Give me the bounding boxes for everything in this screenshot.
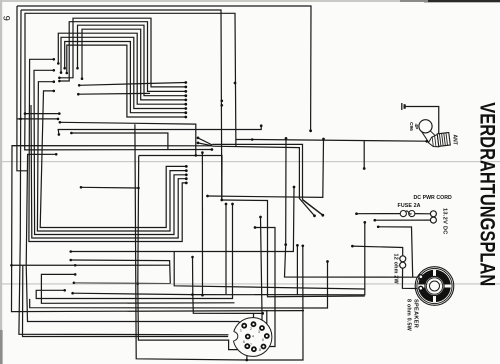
wire left U-loop 1	[40, 91, 186, 228]
wire switch line B m10	[212, 146, 314, 216]
svg-text:7: 7	[250, 343, 252, 347]
wire y155 m5	[139, 156, 222, 200]
svg-text:4P: 4P	[413, 124, 419, 131]
wire bundle top-left U5	[58, 33, 186, 104]
wire m18	[201, 153, 203, 296]
node dots center-bottom	[69, 250, 72, 253]
wire DC cord 3 m40	[378, 227, 413, 277]
node dots column 2	[185, 165, 188, 168]
wire outer loop 3	[25, 13, 236, 150]
wire bundle top-left U1	[59, 18, 185, 87]
node dots switch S1	[197, 137, 200, 140]
wire bundle top-left U4	[82, 29, 186, 100]
wire outer loop 2	[21, 10, 222, 200]
antenna connector C96	[419, 120, 450, 148]
wire antenna stub m13	[363, 141, 365, 169]
wire m27	[225, 204, 227, 294]
wire m20	[222, 200, 365, 297]
svg-text:DC PWR CORD: DC PWR CORD	[414, 195, 453, 201]
wire y85 m8b	[79, 83, 186, 86]
wire left U-loop 5	[29, 59, 186, 241]
wire m33	[23, 265, 248, 336]
wire branch y119	[17, 118, 59, 120]
wire bundle top-left U6	[61, 37, 186, 108]
wire m25 (P leg)	[174, 251, 365, 289]
wire DC cord 1 m38	[357, 213, 401, 215]
wire S-path m4	[71, 133, 167, 150]
svg-text:8: 8	[259, 348, 261, 352]
wire y188 m7	[81, 186, 139, 189]
svg-text:12 ohm 2W: 12 ohm 2W	[393, 254, 399, 285]
wire y129 m3	[58, 126, 261, 135]
wire antenna feed m12	[236, 140, 426, 142]
node dots mid-right	[322, 138, 325, 141]
wire resistor chain m41	[352, 246, 402, 256]
scan artifact darker segment	[74, 282, 171, 285]
wire m21	[255, 228, 275, 347]
wire mid m1	[60, 122, 196, 155]
svg-text:3: 3	[258, 330, 260, 334]
svg-text:2: 2	[250, 327, 252, 331]
wire m17	[193, 257, 263, 313]
fuse F1	[400, 211, 415, 217]
wire branch node A	[25, 113, 59, 115]
wire m15	[71, 187, 294, 252]
wire m29 branch	[12, 264, 171, 266]
wire m35 pin stub	[246, 346, 249, 360]
wire bundle top-left U7	[65, 42, 186, 113]
node dots switch S2	[313, 214, 316, 217]
wire long left-bottom m2	[135, 124, 303, 360]
wire y196 m14	[208, 139, 324, 197]
scan artifact line lower	[0, 283, 500, 285]
wire m26	[30, 262, 328, 309]
svg-text:8 ohm 0.5W: 8 ohm 0.5W	[406, 299, 412, 332]
wire left U-loop 3	[34, 70, 186, 234]
wire antenna top m42	[405, 107, 439, 134]
switch S1 contact arms	[198, 138, 212, 145]
wire m19	[73, 222, 365, 294]
wire m31 with stub	[26, 154, 244, 325]
left edge strip	[0, 0, 2, 364]
speaker LS1	[415, 267, 454, 306]
wire m29 long left vertical	[12, 146, 305, 312]
wire m37 pin stub	[266, 310, 268, 336]
svg-text:ANT: ANT	[452, 135, 458, 145]
antenna plug P1	[402, 103, 405, 110]
node dots mid-left	[58, 112, 61, 115]
wire bracket1 m30	[41, 274, 234, 303]
scan artifact line upper	[0, 161, 500, 163]
wire m16 (Q)	[71, 260, 171, 283]
connector J1 (round multipin)	[228, 318, 272, 357]
wire left U-loop 4	[31, 105, 186, 238]
svg-text:FUSE 2A: FUSE 2A	[398, 203, 421, 209]
svg-text:4: 4	[252, 335, 254, 339]
wire outer loop 1	[17, 6, 311, 131]
top edge strip	[0, 0, 430, 2]
node dots top verticals	[309, 129, 312, 132]
svg-text:VERDRAHTUNGSPLAN: VERDRAHTUNGSPLAN	[476, 102, 500, 286]
svg-text:5: 5	[262, 338, 264, 342]
wire DC cord 2 m39	[375, 219, 431, 221]
svg-text:9: 9	[2, 16, 12, 21]
DC terminal rings	[430, 211, 436, 217]
wire switch line A m9	[212, 144, 302, 199]
node dots column 1	[184, 81, 187, 84]
wire m28	[36, 204, 232, 299]
node dots lower mid verticals	[259, 216, 262, 219]
node dots left stubs	[58, 77, 61, 80]
wire bundle top-left U3	[78, 25, 186, 96]
svg-text:13.2V DC: 13.2V DC	[442, 208, 448, 235]
wire vertical x138 m6	[138, 156, 253, 350]
wire bundle top-left U8	[67, 45, 186, 117]
resistor R1 12ohm	[400, 256, 406, 268]
wire y95 m8	[78, 92, 150, 95]
wire bundle top-left U2	[59, 22, 185, 92]
svg-text:6: 6	[243, 340, 245, 344]
wire m22	[261, 217, 263, 328]
node dots left column x54	[53, 90, 56, 93]
wire m24	[296, 245, 298, 294]
wire left U-loop 2	[37, 82, 186, 231]
svg-text:1: 1	[240, 329, 242, 333]
wire m36 pin stub	[253, 313, 255, 324]
wire m23	[285, 138, 418, 277]
svg-text:SPEAKER: SPEAKER	[413, 299, 419, 328]
